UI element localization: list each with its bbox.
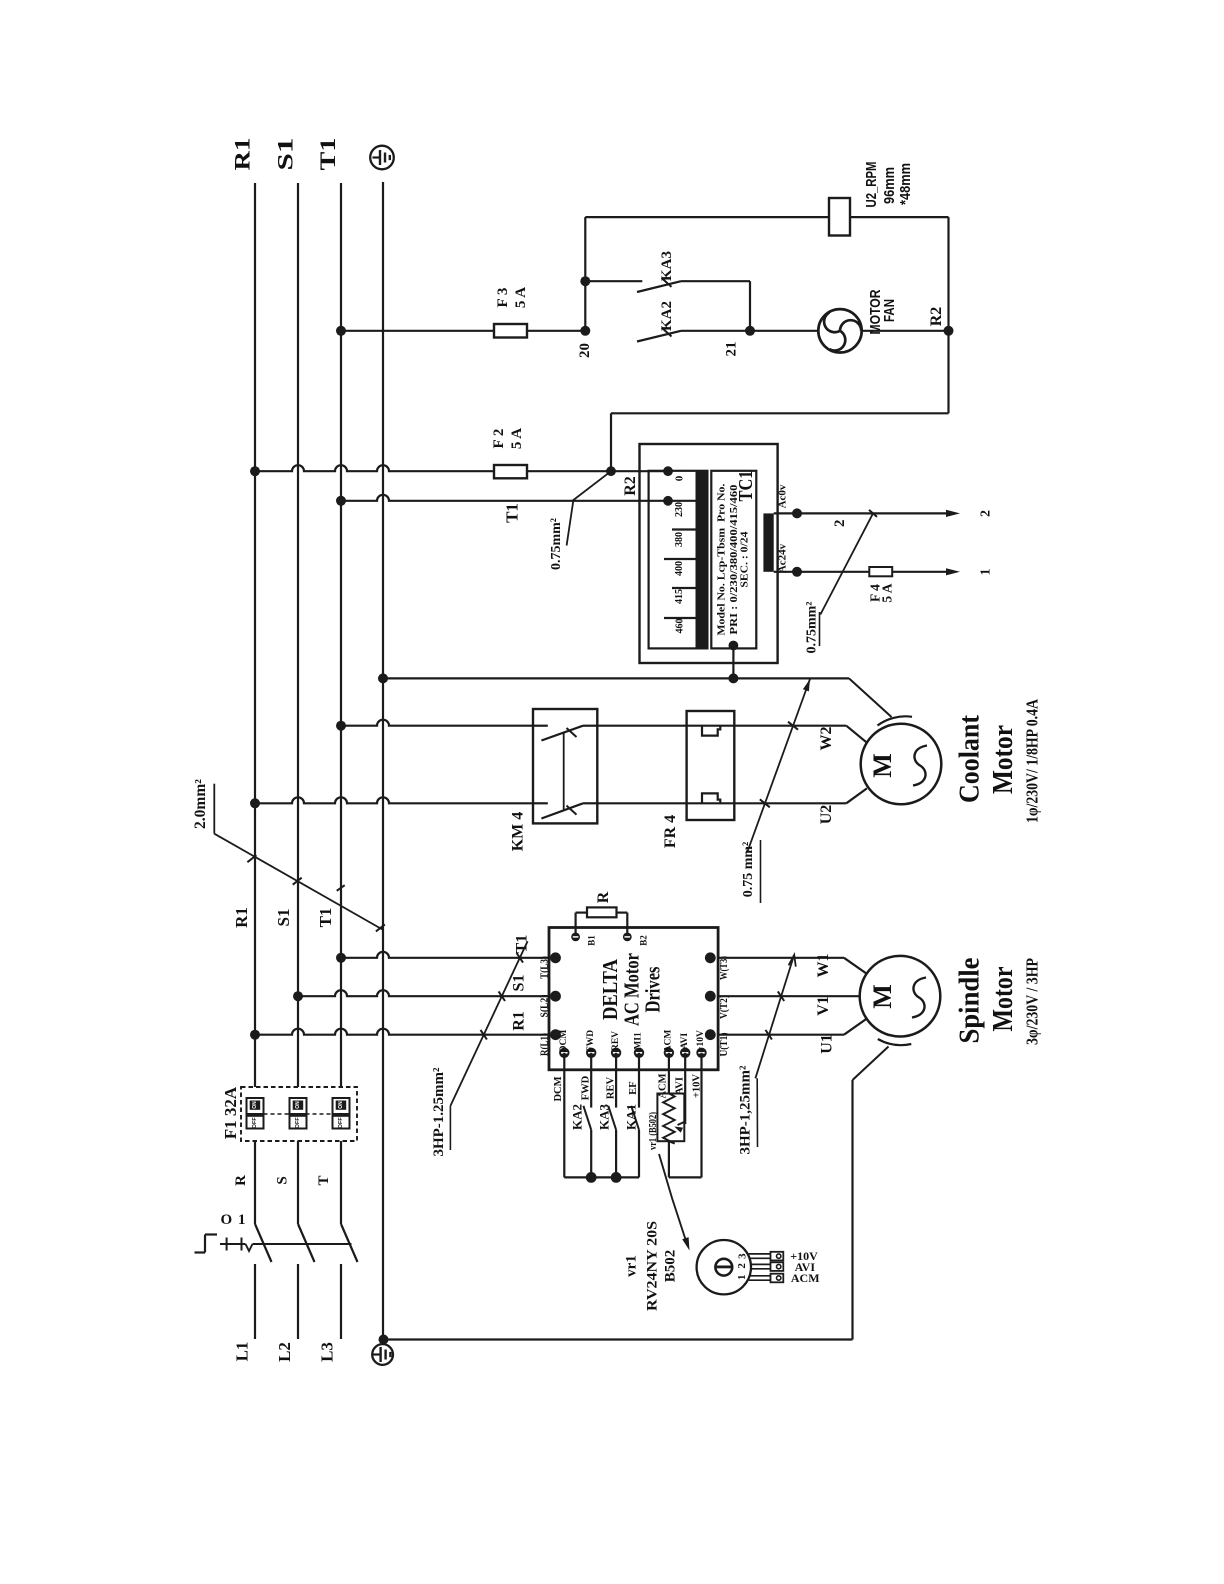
svg-text:R1: R1 <box>511 1011 528 1031</box>
knob pin 3 <box>749 1253 771 1255</box>
fuse F3 <box>494 324 527 338</box>
terminal AVI <box>680 1048 690 1058</box>
svg-text:REV: REV <box>611 1031 621 1051</box>
svg-text:T1: T1 <box>315 138 340 171</box>
terminal B2 <box>623 933 632 942</box>
breaker pole 1 <box>247 1098 264 1129</box>
contact KA2 (relay NO) <box>637 331 681 342</box>
node 20 <box>580 326 590 336</box>
terminal ACM <box>664 1048 674 1058</box>
arrow terminal 2 <box>946 510 960 517</box>
svg-text:FR 4: FR 4 <box>662 815 679 848</box>
svg-text:96mm: 96mm <box>881 167 898 204</box>
svg-text:DELTA: DELTA <box>598 958 622 1020</box>
potentiometer vr1 box <box>657 1094 684 1142</box>
svg-text:R: R <box>233 1175 249 1186</box>
svg-text:0.75mm²: 0.75mm² <box>805 601 820 653</box>
svg-text:vr1 (B502): vr1 (B502) <box>647 1112 659 1150</box>
leader 0.75mm coolant <box>748 679 811 852</box>
wire R2 into F2 node <box>610 413 612 471</box>
wire T1 to drive TL3 <box>341 952 549 958</box>
wire bus S1 (vertical) <box>297 183 299 1087</box>
node PE bottom <box>379 1335 389 1345</box>
svg-text:5 A: 5 A <box>879 583 894 602</box>
node Ac24v <box>792 567 802 577</box>
svg-text:415: 415 <box>673 589 685 604</box>
svg-text:B502: B502 <box>663 1250 679 1283</box>
leader 0.75mm2 primary <box>567 471 611 545</box>
svg-text:DCM: DCM <box>553 1076 564 1101</box>
svg-text:T: T <box>316 1175 332 1185</box>
svg-text:ACM: ACM <box>791 1271 820 1285</box>
switch pole T <box>340 1141 342 1224</box>
wire node R2 to TC1 tap 0 <box>611 470 668 472</box>
wire FWD with contact KA2 <box>590 1053 592 1108</box>
svg-text:R2: R2 <box>622 476 639 496</box>
svg-text:20: 20 <box>577 343 593 358</box>
svg-text:3HP-1,25mm²: 3HP-1,25mm² <box>738 1065 754 1155</box>
wire F3 to node 20 <box>527 330 585 332</box>
wire drive V output <box>718 995 860 997</box>
svg-text:460: 460 <box>674 618 686 633</box>
svg-text:3φ/230V / 3HP: 3φ/230V / 3HP <box>1022 958 1041 1045</box>
node R1 drive <box>250 1030 260 1040</box>
fuse F4 <box>869 567 892 576</box>
wire REV with contact KA3 <box>615 1053 617 1108</box>
svg-text:SEC. : 0/24: SEC. : 0/24 <box>739 531 751 588</box>
svg-text:+10V: +10V <box>696 1030 706 1052</box>
wire Ac24v output <box>774 571 870 573</box>
svg-text:RV24NY 20S: RV24NY 20S <box>644 1221 660 1311</box>
svg-text:T1: T1 <box>316 908 335 928</box>
wire drive U output <box>718 1034 844 1036</box>
svg-text:T1: T1 <box>514 935 531 954</box>
TC1 tap 230 terminal <box>668 500 696 502</box>
svg-text:OFF: OFF <box>295 1117 301 1129</box>
wire node20 riser to RPM loop <box>584 217 586 331</box>
svg-text:3HP-1.25mm²: 3HP-1.25mm² <box>431 1067 447 1157</box>
wire T1 to TC1 tap 230 <box>341 495 668 501</box>
node FWD tie <box>586 1172 597 1183</box>
svg-text:Ac24v: Ac24v <box>776 543 788 573</box>
wire F2 to node R2 <box>527 470 611 472</box>
svg-text:KA3: KA3 <box>596 1104 611 1131</box>
svg-text:OFF: OFF <box>252 1117 258 1129</box>
svg-text:1: 1 <box>736 1275 748 1281</box>
breaker pole link dashed <box>264 1113 333 1115</box>
svg-text:R2: R2 <box>928 307 945 327</box>
svg-text:1: 1 <box>238 1212 246 1228</box>
node KA3 branch junction <box>580 276 590 286</box>
svg-text:MI1: MI1 <box>634 1032 644 1050</box>
svg-text:ON: ON <box>252 1101 258 1109</box>
terminal MI1 <box>634 1048 644 1058</box>
svg-text:21: 21 <box>724 342 740 357</box>
resistor U2_RPM <box>829 198 850 236</box>
ground symbol top (protective earth) <box>370 146 394 170</box>
TC1 tap 0 terminal <box>663 466 673 476</box>
svg-text:S1: S1 <box>511 975 528 992</box>
switch pole S <box>297 1141 299 1224</box>
svg-text:EF: EF <box>628 1081 639 1094</box>
svg-text:AVI: AVI <box>675 1077 686 1095</box>
coolant frame arc <box>878 716 913 725</box>
node 21 <box>745 326 755 336</box>
node T1 tap KM4 <box>336 721 346 731</box>
wire T1 to KM4 top <box>341 720 533 726</box>
wire U2_RPM to right corner <box>850 216 949 218</box>
wire PE bottom of TC1 <box>383 677 849 679</box>
TC1 primary winding box <box>649 471 708 649</box>
node REV tie <box>611 1172 622 1183</box>
svg-text:1: 1 <box>978 569 993 576</box>
contactor KM4 <box>533 709 597 823</box>
svg-text:B1: B1 <box>587 935 597 946</box>
leader 3HP output <box>755 955 794 1078</box>
leader vr1 knob <box>659 1154 687 1243</box>
svg-text:DCM: DCM <box>559 1030 569 1053</box>
svg-text:FAN: FAN <box>881 299 898 322</box>
resistor R braking <box>574 913 576 937</box>
svg-text:O: O <box>220 1212 232 1228</box>
svg-text:U2: U2 <box>818 805 835 825</box>
wire control common tie <box>564 1176 639 1178</box>
svg-text:W1: W1 <box>815 954 832 978</box>
terminal RL1 <box>550 1029 561 1040</box>
svg-text:R(L1): R(L1) <box>539 1033 551 1056</box>
svg-text:Spindle: Spindle <box>955 958 986 1044</box>
node TC1 bottom <box>728 673 738 683</box>
inverter DELTA AC Motor Drives box <box>549 928 718 1070</box>
TC1 tap 380 <box>672 528 696 530</box>
svg-text:5 A: 5 A <box>513 287 529 308</box>
potentiometer vr1 element <box>663 1094 675 1144</box>
wire KM4 to FR4 bottom <box>597 802 686 804</box>
wire EF with contact KA1 <box>638 1053 640 1108</box>
svg-text:ON: ON <box>295 1101 301 1109</box>
wire FR4 to coolant W2 <box>734 725 846 727</box>
svg-text:1φ/230V/ 1/8HP 0.4A: 1φ/230V/ 1/8HP 0.4A <box>1022 699 1041 823</box>
node T1 tap 230 <box>336 496 346 506</box>
motor fan symbol <box>818 309 861 352</box>
wire bus R1 (vertical) <box>254 183 256 1087</box>
svg-text:T(L3): T(L3) <box>539 956 551 979</box>
terminal VT2 <box>705 991 716 1002</box>
TC1 nameplate box <box>711 471 756 649</box>
svg-text:2: 2 <box>832 519 848 527</box>
svg-text:2: 2 <box>736 1263 748 1269</box>
wire T1 to F3 fuse line <box>341 330 494 332</box>
arrow AVI wiper <box>678 1122 686 1126</box>
terminal +10V <box>696 1048 706 1058</box>
spindle motor M <box>860 956 941 1037</box>
svg-text:REV: REV <box>606 1076 617 1099</box>
breaker pole 3 <box>333 1098 350 1129</box>
svg-text:S1: S1 <box>274 909 293 927</box>
svg-text:L3: L3 <box>318 1342 337 1362</box>
svg-text:R: R <box>595 891 612 903</box>
svg-text:Coolant: Coolant <box>955 714 986 803</box>
wire R2 horizontal return <box>611 412 949 414</box>
svg-text:U(T1): U(T1) <box>718 1032 730 1056</box>
leader 3HP input <box>450 941 527 1106</box>
svg-text:KM 4: KM 4 <box>510 812 527 852</box>
ground symbol bottom <box>372 1344 393 1365</box>
wire R1 to drive RL1 <box>255 1029 549 1035</box>
svg-text:vr1: vr1 <box>623 1255 639 1277</box>
fuse F2 <box>494 465 527 478</box>
svg-text:R1: R1 <box>230 138 255 171</box>
wire spindle PE <box>853 1047 889 1081</box>
transformer TC1 outline <box>640 444 778 663</box>
terminal UT1 <box>705 1029 716 1040</box>
node PE tap <box>378 673 388 683</box>
svg-text:U2_RPM: U2_RPM <box>863 162 880 208</box>
svg-text:0: 0 <box>674 475 686 481</box>
breaker F1 32A box <box>241 1087 357 1141</box>
svg-text:M: M <box>868 753 897 778</box>
wire R2 vertical drop <box>947 217 949 413</box>
svg-text:ON: ON <box>338 1101 344 1109</box>
svg-text:V1: V1 <box>815 996 832 1016</box>
node T1 tap for fan circuit <box>336 326 346 336</box>
svg-text:ACM: ACM <box>658 1073 669 1098</box>
terminal DCM <box>559 1048 569 1058</box>
switch handle <box>205 1233 217 1235</box>
svg-text:FWD: FWD <box>581 1075 592 1100</box>
wire Ac0v output <box>774 512 952 514</box>
wire RPM loop top <box>585 216 829 218</box>
wire R1 to KM4 bottom <box>255 797 533 803</box>
svg-text:S(L2): S(L2) <box>539 994 551 1017</box>
svg-text:F1 32A: F1 32A <box>221 1086 240 1139</box>
switch plus marks <box>226 1238 228 1251</box>
svg-text:L1: L1 <box>233 1342 252 1362</box>
svg-text:2.0mm²: 2.0mm² <box>192 779 209 829</box>
wire bus T1 (vertical) <box>340 183 342 1087</box>
node Ac0v <box>792 508 802 518</box>
svg-text:AVI: AVI <box>680 1033 690 1049</box>
TC1 secondary tie to nameplate <box>729 641 739 651</box>
wire node 21 to motor fan <box>750 330 818 332</box>
node S1 drive <box>293 991 303 1001</box>
svg-text:W(T3): W(T3) <box>718 956 730 980</box>
wire AVI wiper <box>684 1053 686 1124</box>
switch pole R <box>254 1141 256 1224</box>
wire R1 to F2 line <box>255 465 494 471</box>
wire KM4 to FR4 top <box>597 725 686 727</box>
switch linkage <box>220 1243 246 1245</box>
svg-text:W2: W2 <box>818 727 835 751</box>
wire ACM down <box>668 1053 670 1094</box>
contact KA3 (relay NO) <box>585 280 642 282</box>
svg-text:0.75 mm²: 0.75 mm² <box>741 842 756 898</box>
wire PE bottom return <box>384 1338 853 1340</box>
node R1 tap KM4 <box>250 798 260 808</box>
wire +10V down <box>700 1053 702 1178</box>
wire drive W output <box>718 957 844 959</box>
wire fan to R2 node <box>862 330 949 332</box>
svg-text:+10V: +10V <box>692 1074 703 1098</box>
svg-text:S: S <box>275 1176 291 1184</box>
svg-text:S1: S1 <box>273 138 298 171</box>
svg-text:230: 230 <box>673 502 685 517</box>
svg-text:OFF: OFF <box>338 1117 344 1129</box>
svg-text:R1: R1 <box>232 907 251 928</box>
svg-text:0.75mm²: 0.75mm² <box>549 518 564 570</box>
svg-text:400: 400 <box>673 561 685 576</box>
TC1 tap 460 <box>664 617 696 619</box>
terminal REV <box>611 1048 621 1058</box>
svg-text:F 3: F 3 <box>495 288 511 308</box>
svg-text:F 2: F 2 <box>491 429 507 449</box>
leader 0.75mm2 secondary <box>820 513 873 614</box>
svg-text:KA3: KA3 <box>659 251 675 281</box>
terminal WT3 <box>705 952 716 963</box>
svg-text:T1: T1 <box>503 503 522 523</box>
breaker pole 2 <box>290 1098 307 1129</box>
terminal FWD <box>586 1048 596 1058</box>
node R2 junction at TC1 <box>606 466 616 476</box>
wire PE diagonal to coolant frame <box>849 678 892 717</box>
spindle frame arc <box>878 1039 912 1045</box>
terminal B1 <box>571 933 580 942</box>
knob pin 2 <box>751 1263 771 1265</box>
svg-text:M: M <box>868 984 897 1009</box>
wire DCM down <box>563 1053 565 1178</box>
svg-text:Drives: Drives <box>641 967 665 1013</box>
potentiometer knob vr1 <box>697 1240 751 1294</box>
knob pin 1 <box>749 1275 771 1277</box>
svg-text:3: 3 <box>737 1253 749 1259</box>
node R2 <box>944 326 954 336</box>
TC1 tap 400 <box>664 558 696 560</box>
svg-text:KA2: KA2 <box>659 301 675 331</box>
svg-text:2: 2 <box>978 510 993 517</box>
node T1 drive <box>336 953 346 963</box>
terminal TL3 <box>550 952 561 963</box>
svg-text:KA1: KA1 <box>623 1104 638 1130</box>
arrow terminal 1 <box>946 568 960 575</box>
wire bus PE ground (vertical) <box>382 182 384 1340</box>
svg-text:U1: U1 <box>819 1034 836 1054</box>
TC1 tap 415 <box>672 587 696 589</box>
svg-text:FWD: FWD <box>586 1030 596 1052</box>
wire FR4 to coolant U2 <box>734 802 846 804</box>
coolant motor M <box>861 724 942 805</box>
terminal SL2 <box>550 991 561 1002</box>
svg-text:Motor: Motor <box>988 725 1019 794</box>
overload relay FR4 <box>687 711 735 820</box>
wire S1 to drive SL2 <box>298 990 549 996</box>
svg-text:B2: B2 <box>638 935 648 946</box>
TC1 secondary winding <box>763 513 773 571</box>
leader 2.0mm2 <box>213 784 215 834</box>
svg-text:*48mm: *48mm <box>897 163 914 205</box>
svg-text:V(T2): V(T2) <box>718 995 730 1019</box>
wire KA3 down to node 21 <box>749 281 751 331</box>
wire pot bottom tie <box>668 1141 670 1177</box>
svg-text:Motor: Motor <box>988 966 1019 1031</box>
node R1 tap F2 <box>250 466 260 476</box>
wire F4 to arrow 1 <box>892 571 952 573</box>
svg-text:ACM: ACM <box>664 1030 674 1053</box>
svg-text:KA2: KA2 <box>570 1104 585 1130</box>
svg-text:5 A: 5 A <box>509 428 525 449</box>
svg-text:L2: L2 <box>275 1342 294 1362</box>
svg-text:Ac0v: Ac0v <box>776 484 788 508</box>
svg-text:Model No. Lcp-Tbsm Pro No.: Model No. Lcp-Tbsm Pro No. <box>716 483 728 635</box>
svg-text:380: 380 <box>673 532 685 547</box>
